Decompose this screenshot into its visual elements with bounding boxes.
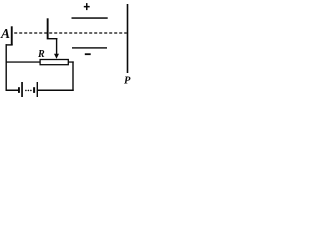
battery cell 2 short thick plate	[33, 87, 35, 93]
slider arrowhead	[54, 54, 59, 59]
wire to resistor left terminal	[6, 61, 41, 62]
electron beam dashed line	[14, 32, 127, 34]
battery dots	[25, 90, 27, 92]
wire resistor right terminal	[69, 61, 74, 62]
wire jog from anode bottom to right	[47, 38, 58, 39]
svg-text:R: R	[37, 49, 45, 60]
electrode plate left (cathode)	[11, 26, 13, 45]
battery cell 2 long plate	[37, 82, 38, 97]
battery cell 1 long plate	[21, 82, 23, 97]
plus label	[84, 6, 90, 8]
screen P line	[127, 4, 129, 73]
svg-text:A: A	[0, 26, 10, 41]
resistor R box	[40, 60, 68, 65]
capacitor bottom plate	[72, 47, 107, 48]
battery cell 1 short thick plate	[18, 87, 20, 93]
wire bottom left segment	[6, 90, 19, 92]
capacitor top plate	[72, 17, 108, 19]
wire jog from cathode bottom to left	[6, 44, 13, 45]
wire bottom right segment	[38, 90, 74, 92]
wire slider stem	[56, 38, 57, 55]
wire left vertical	[6, 44, 7, 91]
wire right vertical	[72, 61, 73, 90]
minus label	[85, 53, 91, 55]
svg-text:P: P	[124, 76, 131, 87]
electrode plate center (anode)	[47, 18, 49, 38]
